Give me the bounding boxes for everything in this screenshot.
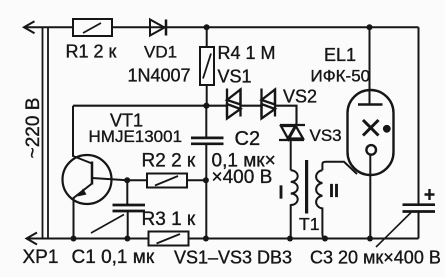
node emitter bottom rail bbox=[71, 236, 77, 242]
XP1 bottom pin arrow bbox=[27, 233, 38, 245]
svg-text:VS1–VS3 DB3: VS1–VS3 DB3 bbox=[174, 248, 292, 268]
capacitor C3 bbox=[403, 205, 436, 212]
svg-text:R3 1 к: R3 1 к bbox=[142, 209, 196, 230]
transformer T1 winding II bbox=[316, 170, 326, 238]
node lamp bottom rail bbox=[367, 236, 373, 242]
capacitor C2 bbox=[191, 106, 224, 239]
node base/R2/C1 junction bbox=[124, 177, 130, 183]
wire VS3 to transformer winding I bbox=[290, 140, 292, 170]
svg-text:~220 В: ~220 В bbox=[23, 98, 44, 159]
node winding II bottom rail bbox=[322, 236, 328, 242]
resistor R3 bbox=[149, 232, 189, 246]
svg-text:VS3: VS3 bbox=[310, 126, 342, 145]
svg-text:С3 20 мк×400 В: С3 20 мк×400 В bbox=[310, 248, 441, 268]
svg-text:R4 1 M: R4 1 M bbox=[218, 43, 276, 63]
wire winding II top to trigger bbox=[322, 162, 357, 174]
resistor R2 bbox=[147, 174, 206, 188]
label C3 polarity plus bbox=[425, 189, 435, 200]
lamp bottom electrode circle bbox=[366, 145, 376, 155]
svg-text:EL1: EL1 bbox=[324, 45, 356, 65]
svg-text:С1 0,1 мк: С1 0,1 мк bbox=[72, 247, 155, 268]
lamp cross symbol bbox=[363, 120, 379, 136]
wire top rail bbox=[24, 26, 419, 28]
svg-text:T1: T1 bbox=[299, 214, 319, 234]
wire lamp bottom electrode to rail bbox=[369, 155, 371, 239]
svg-text:ИФК-50: ИФК-50 bbox=[311, 67, 371, 86]
connector XP1 body lines bbox=[43, 27, 49, 238]
transformer T1 winding I bbox=[291, 170, 298, 238]
transformer T1 core bbox=[305, 160, 308, 214]
wire between diacs bbox=[241, 105, 262, 107]
diac VS1 bbox=[227, 89, 241, 119]
wire right edge down to C3 bbox=[418, 27, 420, 205]
diac VS3 bbox=[279, 125, 305, 140]
wire bottom rail bbox=[27, 238, 419, 240]
transistor VT1 bbox=[63, 106, 128, 239]
svg-text:1N4007: 1N4007 bbox=[128, 66, 191, 86]
capacitor C1 bbox=[113, 180, 146, 238]
leader line C3 label bbox=[376, 213, 411, 248]
svg-text:II: II bbox=[329, 181, 339, 201]
node top R4 junction bbox=[204, 24, 210, 30]
wire base node to R2 bbox=[127, 179, 147, 181]
node A junction bbox=[203, 103, 209, 109]
XP1 top pin arrow bbox=[24, 21, 35, 33]
svg-text:VD1: VD1 bbox=[144, 43, 177, 62]
svg-text:VS2: VS2 bbox=[283, 87, 317, 107]
node top lamp junction bbox=[367, 24, 373, 30]
lamp EL1 envelope bbox=[348, 90, 394, 175]
node R2 right on C2 line bbox=[203, 177, 209, 183]
resistor R4 bbox=[200, 27, 214, 106]
svg-text:VS1: VS1 bbox=[218, 67, 252, 87]
svg-text:R1 2 к: R1 2 к bbox=[66, 42, 117, 62]
svg-text:XP1: XP1 bbox=[23, 247, 59, 268]
node winding I bottom rail bbox=[287, 236, 293, 242]
lamp top electrode bar bbox=[358, 103, 383, 106]
wire VS2 to corner down to VS3 bbox=[275, 106, 297, 126]
lamp dot symbol bbox=[383, 125, 391, 133]
svg-text:I: I bbox=[279, 183, 284, 203]
diac VS2 bbox=[262, 89, 276, 119]
resistor R1 bbox=[73, 19, 112, 36]
node C2 bottom rail bbox=[203, 236, 209, 242]
svg-text:×400 В: ×400 В bbox=[212, 167, 273, 188]
node C1 bottom rail bbox=[124, 236, 130, 242]
svg-text:C2: C2 bbox=[235, 128, 261, 150]
wire lamp top electrode bbox=[369, 27, 371, 104]
wire collector to node A to diacs bbox=[73, 105, 227, 107]
svg-text:R2 2 к: R2 2 к bbox=[142, 151, 196, 172]
diode VD1 bbox=[150, 20, 166, 36]
leader line C1 label bbox=[91, 215, 124, 234]
svg-text:HMJE13001: HMJE13001 bbox=[89, 127, 183, 146]
wire C3 bottom to bottom rail bbox=[418, 212, 420, 239]
